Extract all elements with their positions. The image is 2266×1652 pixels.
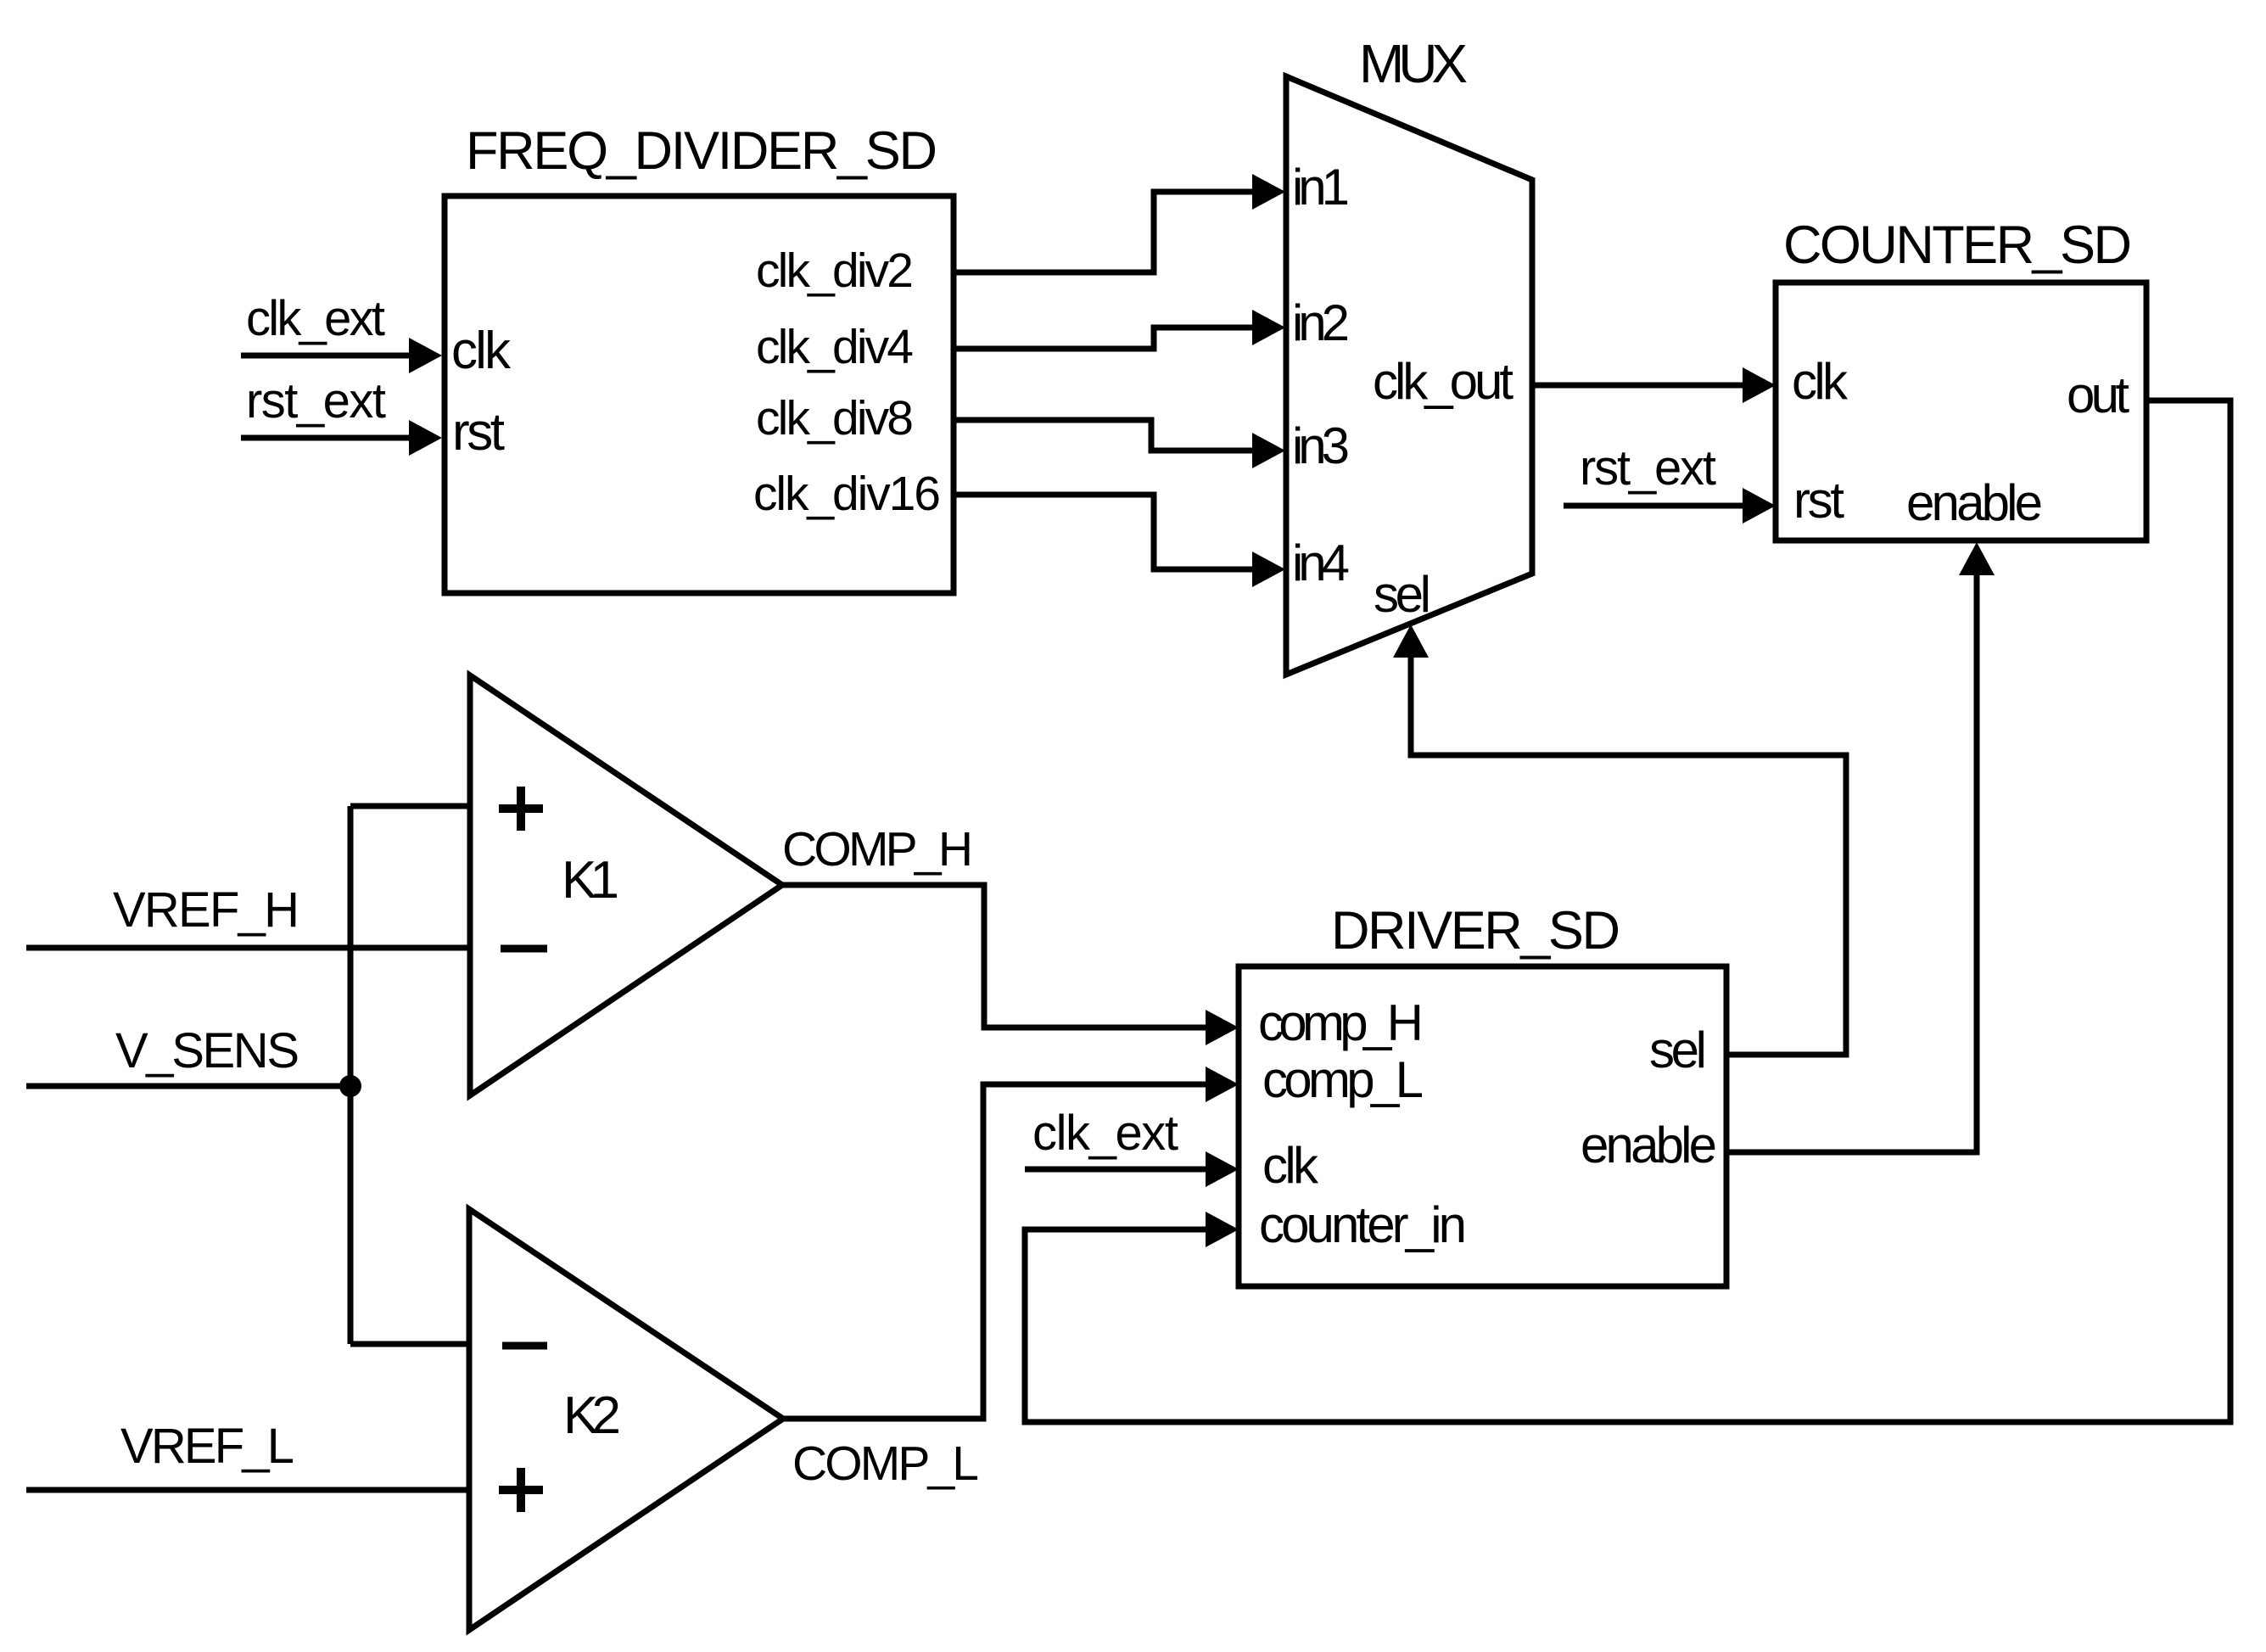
- svg-text:clk_div2: clk_div2: [756, 244, 914, 298]
- svg-text:DRIVER_SD: DRIVER_SD: [1331, 901, 1620, 960]
- svg-text:clk_div4: clk_div4: [756, 320, 914, 374]
- svg-text:rst: rst: [452, 403, 505, 462]
- svg-text:clk_ext: clk_ext: [1032, 1106, 1178, 1161]
- svg-text:clk_div8: clk_div8: [756, 391, 914, 445]
- svg-text:rst_ext: rst_ext: [1580, 440, 1716, 496]
- svg-text:comp_L: comp_L: [1262, 1051, 1424, 1108]
- svg-text:enable: enable: [1906, 474, 2043, 531]
- svg-text:V_SENS: V_SENS: [115, 1023, 299, 1078]
- svg-text:K2: K2: [563, 1386, 621, 1445]
- svg-text:COUNTER_SD: COUNTER_SD: [1783, 216, 2132, 275]
- svg-text:clk_div16: clk_div16: [753, 467, 941, 521]
- svg-text:clk: clk: [1262, 1137, 1319, 1194]
- svg-text:COMP_L: COMP_L: [792, 1436, 979, 1491]
- svg-text:K1: K1: [562, 851, 619, 910]
- svg-text:clk: clk: [451, 322, 512, 380]
- svg-text:in3: in3: [1292, 417, 1350, 474]
- svg-text:comp_H: comp_H: [1258, 994, 1424, 1051]
- svg-text:VREF_H: VREF_H: [113, 882, 299, 938]
- svg-text:sel: sel: [1649, 1022, 1707, 1078]
- svg-text:clk: clk: [1792, 353, 1849, 410]
- svg-text:in1: in1: [1292, 159, 1350, 216]
- svg-text:out: out: [2067, 367, 2129, 423]
- svg-text:counter_in: counter_in: [1259, 1196, 1467, 1253]
- svg-text:FREQ_DIVIDER_SD: FREQ_DIVIDER_SD: [466, 121, 937, 181]
- svg-text:sel: sel: [1374, 566, 1431, 623]
- svg-text:rst: rst: [1793, 472, 1844, 529]
- svg-text:VREF_L: VREF_L: [120, 1419, 294, 1474]
- svg-text:COMP_H: COMP_H: [782, 822, 973, 876]
- svg-text:clk_out: clk_out: [1373, 353, 1513, 410]
- svg-text:MUX: MUX: [1359, 33, 1468, 94]
- svg-text:in4: in4: [1292, 535, 1350, 591]
- svg-text:rst_ext: rst_ext: [246, 373, 386, 428]
- svg-text:clk_ext: clk_ext: [246, 291, 385, 346]
- svg-text:in2: in2: [1292, 294, 1350, 351]
- svg-text:enable: enable: [1581, 1117, 1717, 1173]
